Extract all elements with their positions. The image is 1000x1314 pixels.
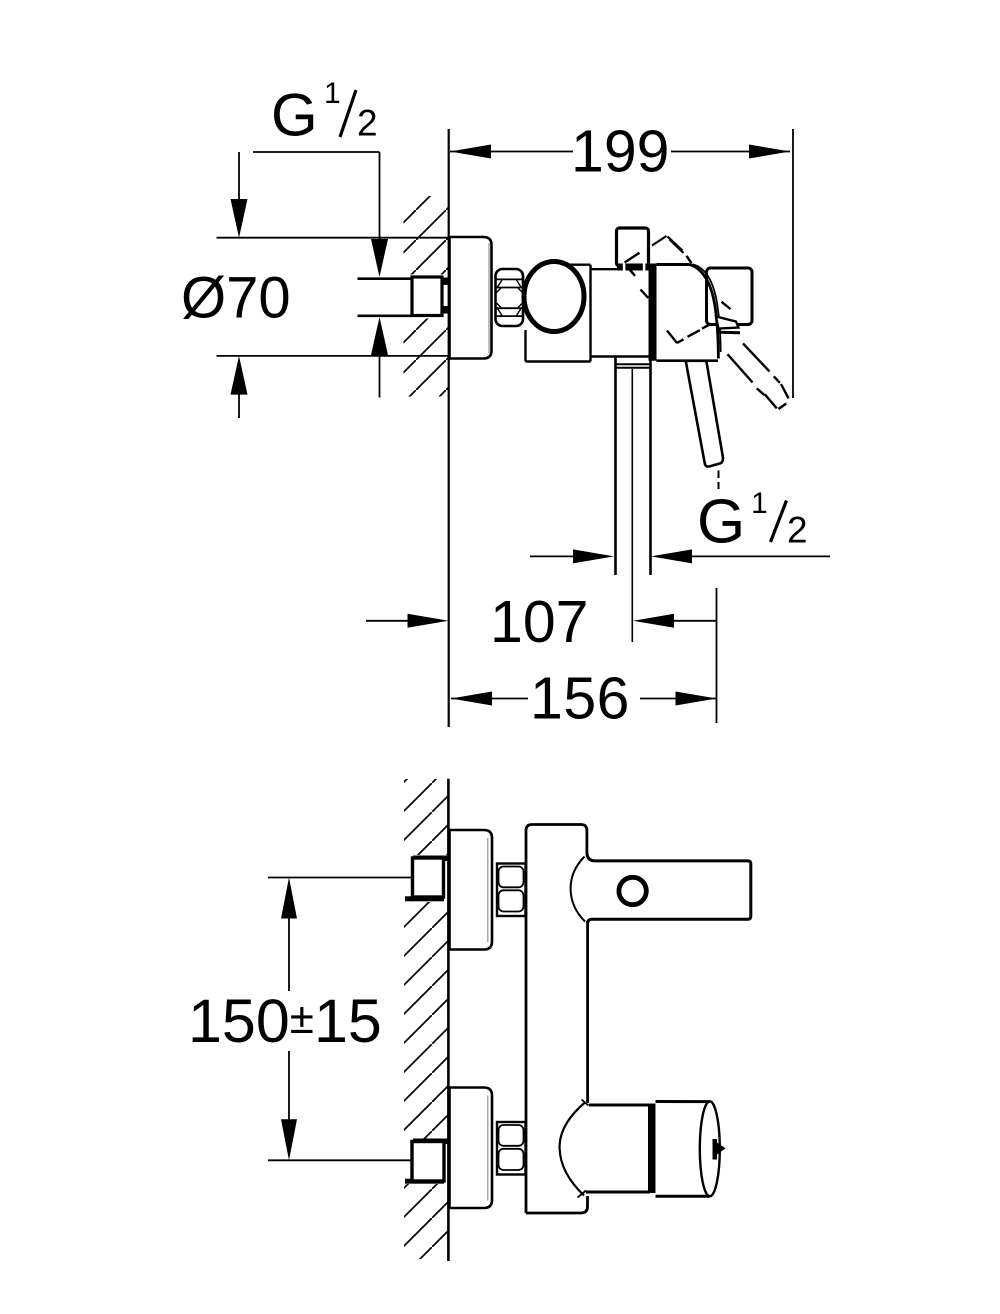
lever hub wedge [716, 317, 739, 329]
ball housing (top view) [565, 264, 591, 266]
150 dim bottom extension line [268, 1159, 413, 1161]
107 dim left arrow [366, 620, 408, 622]
body column front [526, 825, 587, 1214]
shower outlet tube (top view) [614, 358, 617, 575]
bottom inlet channel bars [413, 1139, 449, 1145]
cartridge housing top edge [657, 263, 690, 266]
column bottom edge [526, 1196, 588, 1213]
joint bar between body and cartridge [649, 264, 657, 361]
150 dim vertical line with arrows [288, 916, 290, 991]
wall hatching lower part [404, 319, 449, 397]
cartridge front bottom edge [586, 1191, 650, 1194]
mixer mid body (top view) [591, 268, 649, 270]
ball joint sphere [524, 262, 584, 332]
svg-text:2: 2 [787, 510, 808, 551]
lever end cap (top view) [707, 268, 753, 325]
wall face line front [447, 779, 450, 1261]
bottom S-union square front [412, 1142, 444, 1182]
156 dim line [451, 692, 492, 706]
107 dim right arrow [633, 614, 674, 628]
G1/2 extension line horizontal [253, 151, 380, 153]
knob aerator spigot [713, 1139, 726, 1160]
diverter seat [617, 264, 649, 271]
lever tip center dashes [718, 471, 720, 490]
svg-text:199: 199 [571, 119, 669, 185]
dashed lever open position: dashes [625, 253, 789, 409]
199 right extension line [792, 129, 794, 398]
199 dimension line [450, 151, 573, 153]
dia70 up arrow + stem [231, 356, 248, 395]
wall hatching front [404, 779, 448, 855]
tube center line [631, 369, 633, 642]
svg-text:107: 107 [490, 589, 588, 655]
column right edge between arm and cartridge [586, 921, 589, 1103]
G1/2 lower dim line with arrows at tube [530, 555, 573, 557]
spout arm front [587, 853, 751, 924]
flange face line (gray) [488, 243, 490, 353]
top escutcheon flange front [450, 830, 493, 950]
cartridge front top edge [589, 1104, 650, 1107]
hub lower bar [719, 331, 741, 335]
svg-text:150±15: 150±15 [188, 987, 382, 1055]
diverter knob (top view) [617, 228, 649, 266]
spout arm hole circle [619, 877, 646, 904]
dia70 dim stem + down arrow [238, 152, 240, 205]
union nipple tabs [441, 278, 449, 286]
hex nut (top view) [496, 269, 524, 326]
wall hatching upper part [404, 196, 449, 275]
cartridge dome curve [690, 265, 719, 359]
150 dim top extension line [268, 877, 413, 879]
svg-text:1: 1 [751, 487, 768, 520]
svg-text:1: 1 [324, 77, 341, 110]
arm neck crescent [571, 857, 585, 922]
156 right extension line [716, 588, 718, 723]
svg-text:G: G [271, 82, 318, 149]
lower neck crescent [560, 1102, 586, 1196]
wall face line [448, 129, 450, 727]
bottom hex nut front [497, 1122, 526, 1175]
cartridge housing bottom edge [657, 359, 719, 362]
dia70 bottom extent line [217, 355, 449, 357]
top inlet channel bars [413, 856, 449, 862]
escutcheon flange (top view) [450, 237, 492, 359]
svg-text:Ø70: Ø70 [181, 266, 291, 331]
G1/2 vertical extension + arrows at pipe [379, 152, 381, 240]
svg-text:156: 156 [530, 666, 630, 732]
top hex nut front [497, 864, 526, 917]
dia70 top extent line [217, 237, 449, 239]
lever grip (top view) [686, 361, 723, 467]
supply pipe in wall (top view) [358, 277, 413, 280]
bottom escutcheon flange front [450, 1088, 493, 1209]
knob front [656, 1100, 710, 1103]
top S-union square front [413, 858, 444, 897]
S-union square (top view) [412, 277, 442, 316]
svg-text:2: 2 [357, 103, 378, 144]
dashed lever open position: end cap chevron [652, 236, 684, 253]
cartridge joint bar front [648, 1104, 656, 1194]
svg-text:G: G [697, 488, 745, 557]
